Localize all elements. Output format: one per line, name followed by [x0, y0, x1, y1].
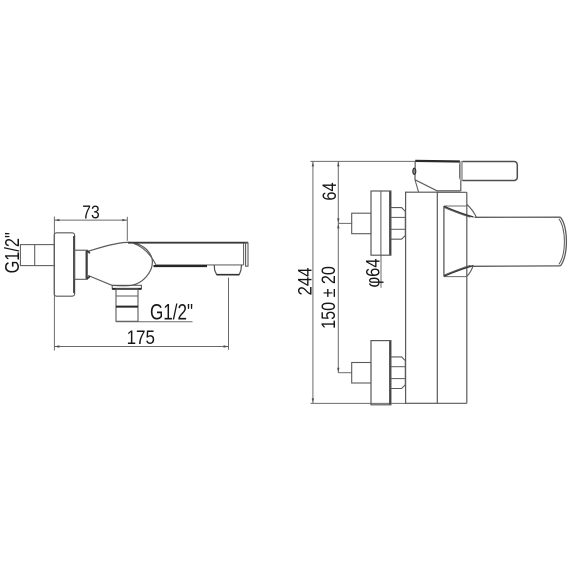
spout side: base plate [443, 206, 445, 277]
set screw [413, 168, 416, 174]
phi64 leader line [380, 255, 382, 287]
corner fillet bottom [467, 266, 473, 276]
cap-to-body diagonal [415, 180, 419, 192]
svg-text:175: 175 [127, 327, 156, 349]
aerator [214, 265, 241, 275]
leader to upper inlet [338, 222, 352, 224]
dimension 73 [54, 219, 127, 221]
upper nut [391, 208, 405, 240]
lower wall flange [371, 341, 391, 405]
wall line / extension line left view [53, 217, 55, 351]
upper wall flange [371, 191, 391, 255]
spout end cap [560, 217, 566, 266]
svg-text:244: 244 [295, 267, 316, 295]
svg-text:64: 64 [320, 182, 341, 201]
lever handle [460, 162, 517, 181]
flare shadow top [444, 207, 473, 218]
svg-text:150 ± 20: 150 ± 20 [318, 266, 340, 329]
spout bottom edge [157, 264, 244, 266]
leader line G1/2 outlet [116, 321, 193, 323]
upper inlet stub [352, 213, 371, 234]
dim line 64 and 150+-20 [337, 161, 339, 372]
shower outlet stub [116, 289, 138, 321]
top extension line [311, 160, 461, 162]
lower nut [391, 357, 405, 389]
corner fillet top [467, 204, 477, 217]
wall supply stub G1/2 left [20, 245, 54, 266]
body front slab [466, 192, 468, 403]
spout cylinder [475, 216, 561, 218]
dim line 244 [312, 161, 314, 403]
shower outlet flange [112, 285, 141, 289]
escutcheon rosette [54, 233, 74, 296]
svg-text:G1/2": G1/2" [2, 232, 24, 273]
svg-text:73: 73 [82, 201, 99, 222]
lower inlet stub [352, 363, 371, 384]
fillet dots at connector corners [87, 251, 90, 253]
dimension 175 [54, 346, 228, 348]
spout bottom shadow [154, 265, 208, 267]
mixer body (egg shape) [88, 242, 153, 285]
spout end cap [243, 243, 245, 265]
leader to lower inlet [338, 372, 351, 374]
connector collar [75, 250, 88, 279]
flare shadow bottom [444, 266, 473, 277]
svg-text:φ64: φ64 [362, 258, 384, 287]
crease between body and spout [134, 243, 157, 266]
body rear slab [406, 192, 438, 403]
svg-text:G1/2": G1/2" [150, 300, 193, 325]
spout top edge (left view) [128, 242, 248, 244]
bottom extension line [311, 402, 407, 404]
cartridge cap [415, 160, 460, 163]
